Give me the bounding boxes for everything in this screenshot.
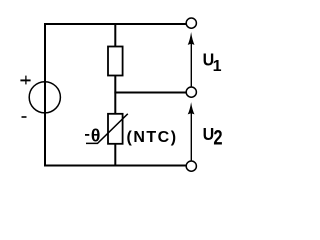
wire left vertical through source (44, 23, 46, 167)
svg-text:2: 2 (213, 127, 222, 150)
label + (20, 79, 30, 81)
arrow U1 (190, 40, 192, 87)
voltage source (29, 82, 60, 113)
terminal bottom right (186, 161, 196, 171)
label - (22, 116, 27, 118)
terminal top right (186, 18, 196, 28)
resistor (108, 47, 123, 76)
wire thermistor bottom stub (114, 144, 116, 166)
label -theta (85, 134, 89, 136)
svg-text:θ: θ (91, 126, 100, 146)
thermistor (NTC) (86, 114, 128, 144)
wire bottom from left corner to terminal (44, 165, 186, 167)
wire between resistor and thermistor (114, 75, 116, 114)
wire top from left corner to terminal U1 (44, 23, 186, 25)
svg-text:(NTC): (NTC) (127, 129, 178, 146)
svg-text:1: 1 (213, 58, 222, 75)
arrow U2 (190, 110, 192, 161)
wire resistor top stub (114, 24, 116, 47)
terminal middle right (186, 87, 196, 97)
wire middle branch from divider node to middle terminal (114, 92, 186, 94)
